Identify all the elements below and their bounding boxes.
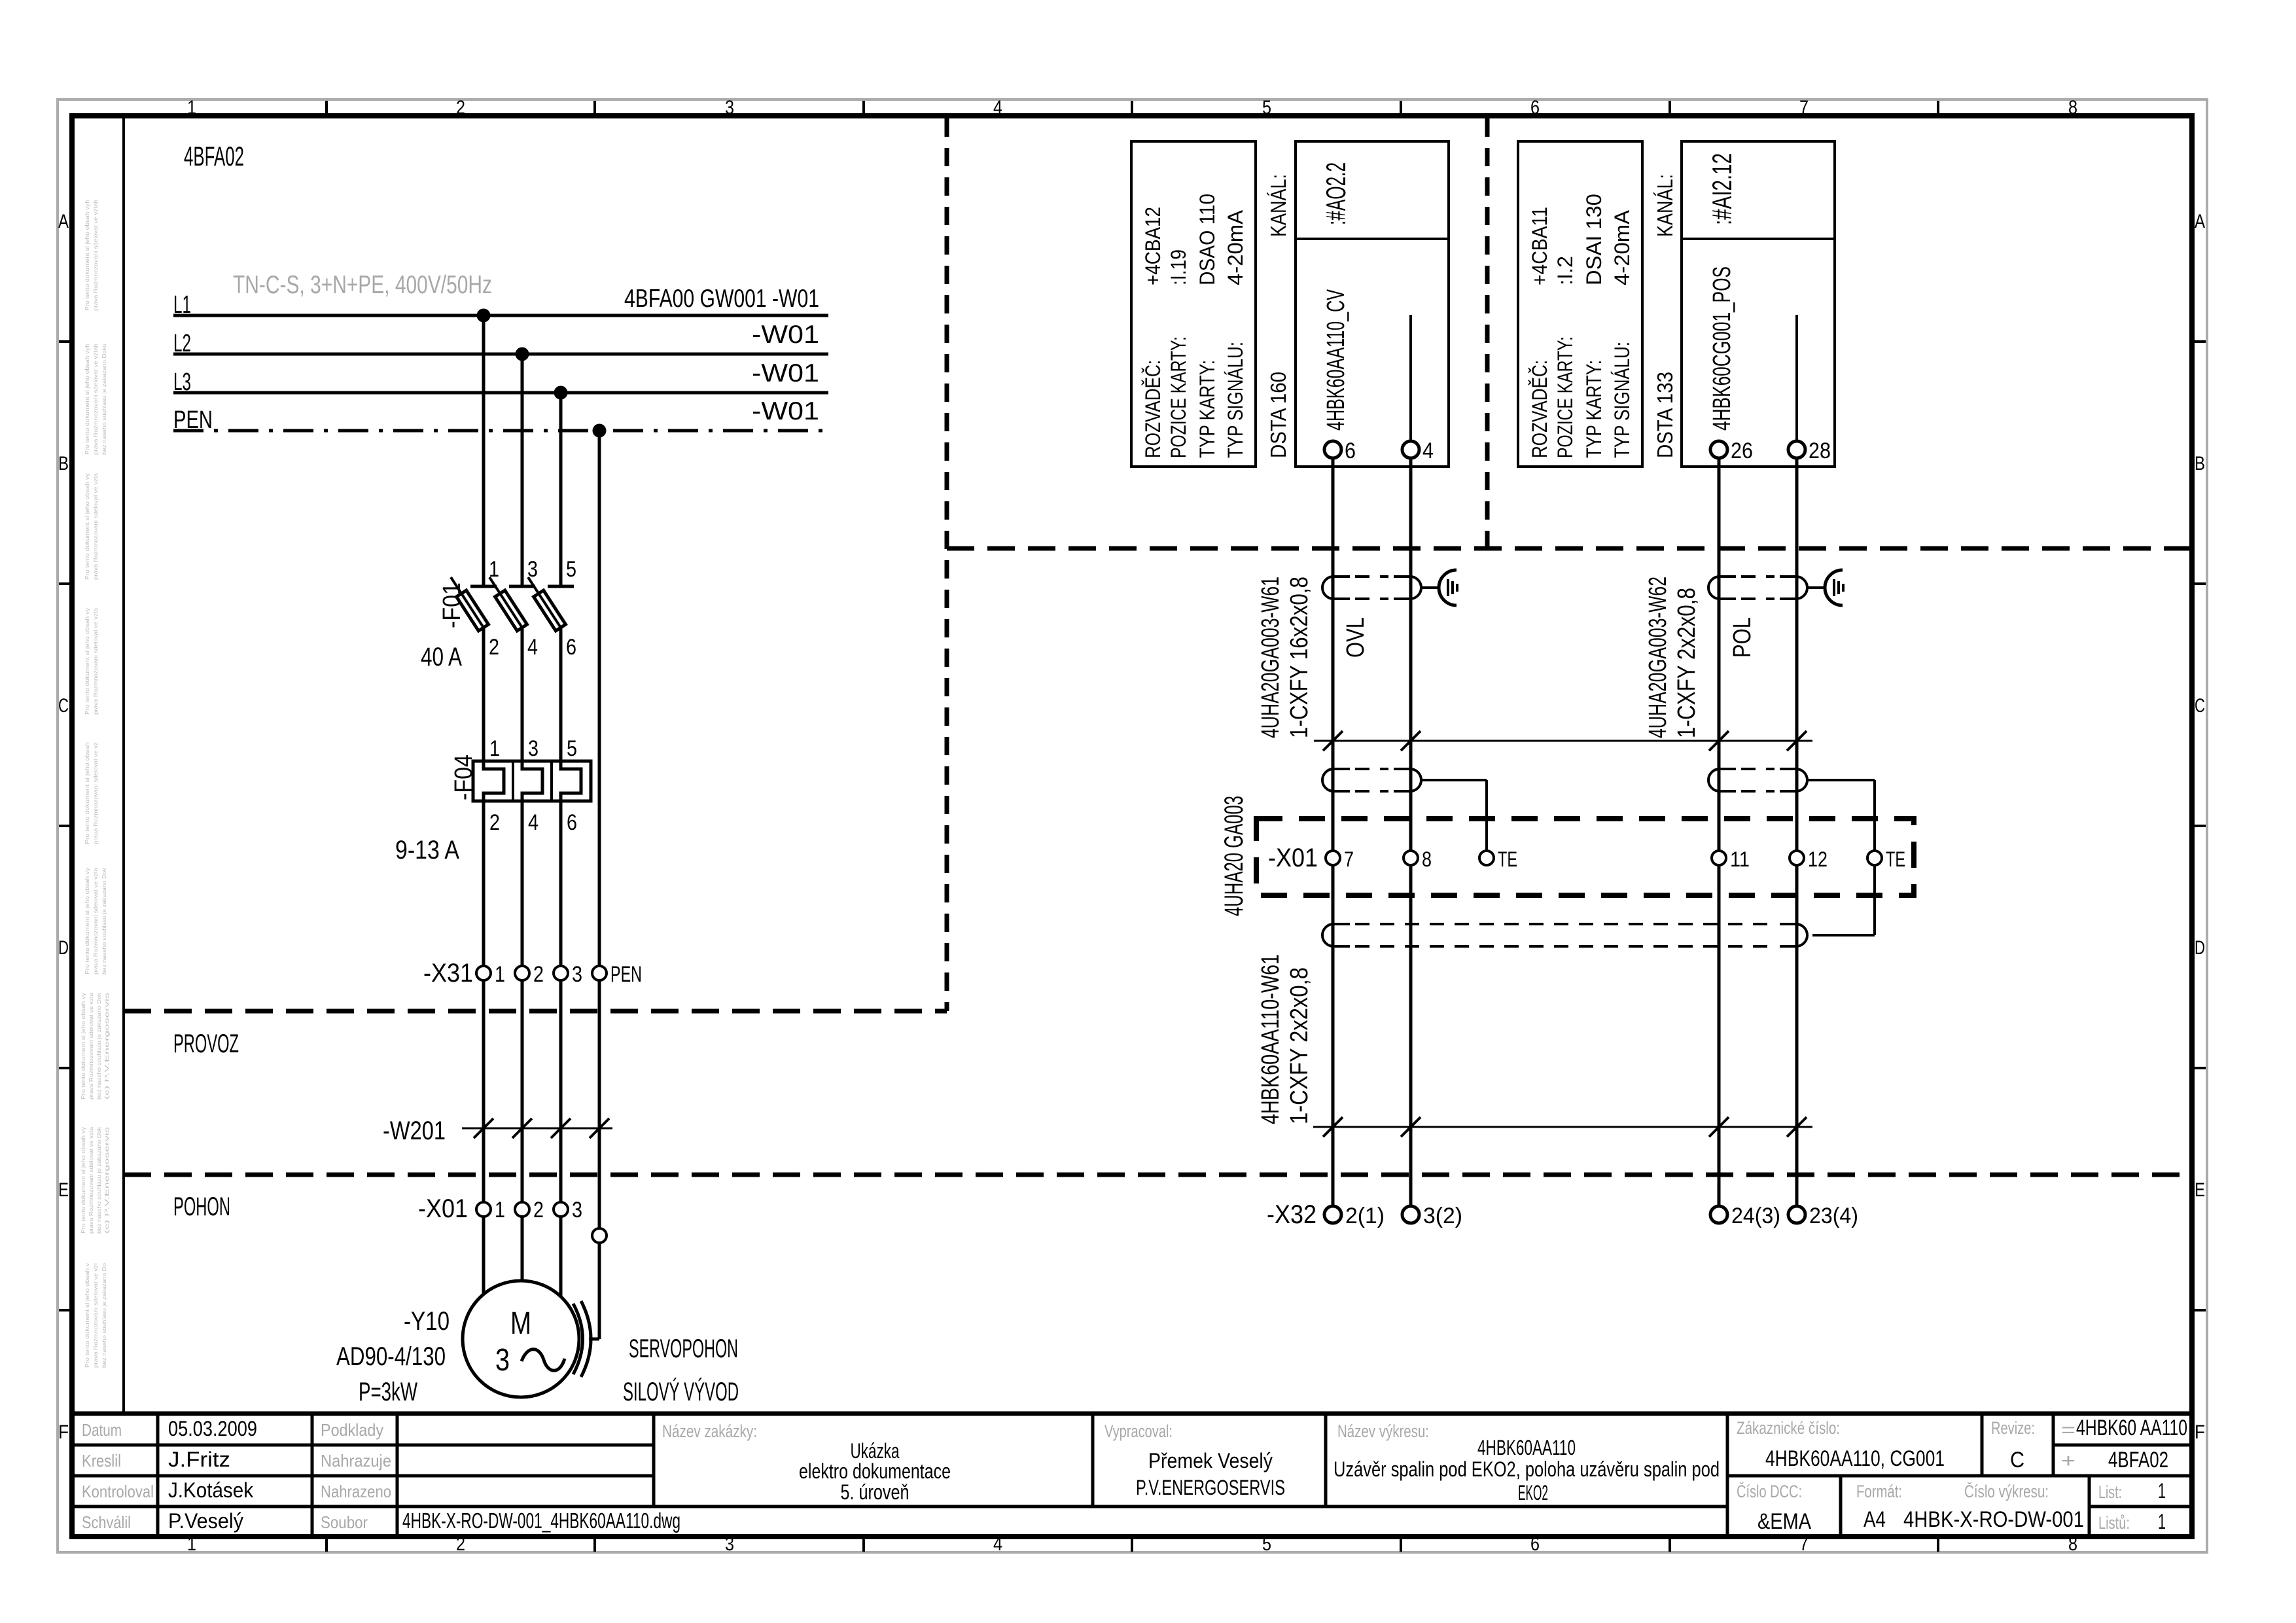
long cable screen below -X01 [1322,924,1807,946]
pin labels -F04 1/2 [489,736,500,835]
svg-text:Číslo DCC:: Číslo DCC: [1737,1481,1802,1501]
svg-text:4UHA20GA003-W61: 4UHA20GA003-W61 [1257,577,1284,738]
svg-text:Soubor: Soubor [321,1512,368,1532]
svg-text:Pro tento dokument si jeho obs: Pro tento dokument si jeho obsah vy [84,473,90,580]
svg-text:M: M [510,1306,531,1341]
svg-text::#AI2.12: :#AI2.12 [1706,153,1737,225]
section label PROVOZ [173,1029,239,1058]
svg-text:OVL: OVL [1342,617,1369,658]
svg-text:Název zakázky:: Název zakázky: [662,1421,757,1441]
svg-text:5. úroveň: 5. úroveň [841,1480,910,1504]
svg-text:1: 1 [2158,1479,2166,1503]
svg-text:-W201: -W201 [383,1116,446,1145]
label DSTA 133 [1653,372,1677,458]
label KANAL (right) [1653,174,1677,237]
svg-text:Pro tento dokument si jeho obs: Pro tento dokument si jeho obsah vyh [84,200,90,311]
svg-text:Kreslil: Kreslil [82,1451,121,1471]
label DSTA 160 [1266,372,1290,458]
svg-text:ROZVADĚČ:: ROZVADĚČ: [1141,360,1165,458]
svg-text:1-CXFY 2x2x0,8: 1-CXFY 2x2x0,8 [1286,967,1313,1124]
section boundary POHON (dashed) [124,1173,2193,1177]
terminal strip -X31 [423,959,642,988]
svg-text:POL: POL [1729,617,1756,658]
svg-text:1-CXFY 2x2x0,8: 1-CXFY 2x2x0,8 [1673,588,1701,738]
cable screen OVL pair (top) [1322,577,1421,599]
cable label -W01 (PEN) [752,397,819,425]
svg-text:POHON: POHON [173,1192,230,1221]
svg-text:elektro dokumentace: elektro dokumentace [799,1459,951,1483]
svg-text:A: A [2195,211,2205,232]
svg-text:2: 2 [456,1533,465,1555]
svg-text:3: 3 [495,1343,510,1378]
svg-text:5: 5 [566,557,576,582]
title block (document furniture) [71,1414,2193,1537]
svg-text:26: 26 [1731,438,1753,463]
svg-text:prava Rozmnozovani sdelovat ve: prava Rozmnozovani sdelovat ve vzta [92,608,99,715]
svg-text:Uzávěr spalin pod EKO2, poloha: Uzávěr spalin pod EKO2, poloha uzávěru s… [1333,1457,1720,1481]
bus L2 [173,330,828,357]
cable label 4UHA20GA003-W62 [1644,577,1672,738]
pin labels -F04 3/4 [528,736,539,835]
thermal overload relay -F04 [450,755,591,801]
svg-text:3: 3 [528,736,539,761]
junction dot L2 [516,348,529,361]
value label 9-13 A [395,836,459,865]
svg-text:prava Rozmnozovani sdelovat ve: prava Rozmnozovani sdelovat ve vzt [92,1262,99,1368]
svg-text:8: 8 [1422,847,1432,871]
I/O card info box U1 (+4CBA12 DSAO 110) [1131,141,1256,467]
svg-text:POZICE KARTY:: POZICE KARTY: [1553,336,1577,458]
svg-text:PEN: PEN [610,962,642,987]
wire from bus down (phase 1) [482,315,486,586]
svg-text:6: 6 [1530,1533,1540,1555]
cable label -W01 (L2) [752,321,819,349]
svg-text:3: 3 [725,1533,734,1555]
svg-text:Revize:: Revize: [1991,1418,2035,1438]
wire -X31 to -X01 (phase 2) [521,980,524,1202]
svg-text:(c) P.V.Energoservis: (c) P.V.Energoservis [103,1127,110,1234]
cable label 4BFA00 GW001 -W01 [624,285,819,313]
svg-text:Formát:: Formát: [1856,1482,1902,1501]
svg-text:3: 3 [725,97,734,118]
signal wire 3 (-X01 to -X32) [1718,865,1721,1207]
svg-text:Pro tento dokument si jeho obs: Pro tento dokument si jeho obsah vyh [84,344,90,455]
signal wire 1 (channel to -X01) [1332,458,1335,851]
svg-text:4-20mA: 4-20mA [1610,209,1634,285]
svg-text:Kontroloval: Kontroloval [82,1482,154,1501]
label SERVOPOHON [629,1334,738,1363]
svg-text:2: 2 [489,810,500,835]
svg-text:-W01: -W01 [752,359,819,387]
wire -X31 to -X01 (phase 3) [559,980,563,1202]
signal wire 4 (-X01 to -X32) [1795,865,1799,1207]
svg-text:4BFA02: 4BFA02 [2108,1448,2168,1472]
svg-text:Pro tento dokument si jeho obs: Pro tento dokument si jeho obsah v [84,1262,90,1368]
svg-text:3(2): 3(2) [1423,1204,1462,1228]
svg-text:3: 3 [572,962,582,987]
svg-text:C: C [2010,1448,2024,1472]
svg-text:5: 5 [567,736,577,761]
svg-text:C: C [2195,695,2205,717]
cable label 1-CXFY 16x2x0,8 [1286,577,1313,738]
svg-text:TE: TE [1498,847,1517,871]
svg-text:A4: A4 [1863,1507,1886,1532]
svg-text:8: 8 [2068,1533,2077,1555]
wire -F04 to -X31 (phase 1) [482,801,486,966]
pin labels -F04 5/6 [567,736,577,835]
screen earth symbol (POL) [1808,570,1843,605]
motor earth arcs [573,1301,591,1377]
motor -Y10 (M 3~) [463,1281,579,1397]
label P=3kW [359,1378,417,1406]
wire from bus down (phase 4) [598,431,601,966]
zone divider dashed vertical 1 [945,118,949,1011]
svg-text:40 A: 40 A [421,643,462,671]
svg-text:&EMA: &EMA [1757,1509,1811,1534]
svg-text:POZICE KARTY:: POZICE KARTY: [1167,336,1190,458]
svg-text:=: = [2061,1419,2075,1441]
wire PEN down from -X31 [598,980,601,1228]
svg-text:Pro tento dokument si jeho obs: Pro tento dokument si jeho obsah vy [84,607,90,715]
screen link to TE (left) [1422,780,1487,851]
fuse-switch -F01 pole 3 (pins 5/6) [528,557,576,761]
svg-text:11: 11 [1730,847,1750,871]
svg-text:4BFA00 GW001 -W01: 4BFA00 GW001 -W01 [624,285,819,313]
wire from bus down (phase 3) [559,393,563,586]
svg-text:SERVOPOHON: SERVOPOHON [629,1334,738,1363]
svg-text:4UHA20GA003-W62: 4UHA20GA003-W62 [1644,577,1672,738]
cable screen (right pair, lower) [1708,769,1807,791]
svg-text:DSTA 160: DSTA 160 [1266,372,1290,458]
svg-text:KANÁL:: KANÁL: [1266,174,1290,237]
svg-text:Pro tento dokument si jeho obs: Pro tento dokument si jeho obsah vy [80,1126,86,1234]
svg-text:TE: TE [1886,847,1905,871]
svg-text:+4CBA12: +4CBA12 [1141,207,1165,285]
svg-text:TYP SIGNÁLU:: TYP SIGNÁLU: [1224,342,1247,458]
signal wire 2 (channel to -X01) [1409,458,1413,851]
svg-text:C: C [58,695,69,717]
svg-text:DSAO 110: DSAO 110 [1195,194,1219,285]
svg-text:28: 28 [1809,438,1831,463]
cable label 1-CXFY 2x2x0,8 (lower) [1286,967,1313,1124]
svg-text:prava Rozmnozovani sdelovat ve: prava Rozmnozovani sdelovat ve vztah [92,200,99,311]
svg-text:4HBK-X-RO-DW-001: 4HBK-X-RO-DW-001 [1903,1507,2084,1532]
svg-text:DSTA 133: DSTA 133 [1653,372,1677,458]
zone divider dashed horizontal [947,546,2193,551]
junction dot L3 [554,386,568,400]
svg-text:4-20mA: 4-20mA [1224,209,1247,285]
svg-text:1: 1 [2158,1510,2166,1533]
TE wire to lower screen [1812,865,1875,935]
terminal strip -X01 (drive) [418,1194,582,1223]
svg-text:8: 8 [2068,97,2077,118]
svg-text:bez naseho souhlasu je zakazan: bez naseho souhlasu je zakazano Do [101,1263,107,1368]
value label 40 A [421,643,462,671]
I/O card info box U2 (+4CBA11 DSAI 130) [1518,141,1642,467]
svg-text:7: 7 [1799,1533,1809,1555]
svg-text:A: A [58,211,69,232]
fuse-switch -F01 pole 1 (pins 1/2) [451,557,499,761]
svg-text:Podklady: Podklady [321,1420,383,1440]
svg-text:PROVOZ: PROVOZ [173,1029,239,1058]
svg-text:4HBK60 AA110: 4HBK60 AA110 [2076,1416,2187,1440]
svg-text:5: 5 [1262,97,1271,118]
svg-text:Nahrazuje: Nahrazuje [321,1451,391,1471]
svg-text:AD90-4/130: AD90-4/130 [336,1342,446,1371]
svg-text:-X01: -X01 [1268,844,1318,872]
cable label 1-CXFY 2x2x0,8 [1673,588,1701,738]
svg-text:1: 1 [495,962,505,987]
svg-text:Zákaznické číslo:: Zákaznické číslo: [1737,1418,1840,1438]
svg-text:EKO2: EKO2 [1518,1481,1548,1505]
svg-text:KANÁL:: KANÁL: [1653,174,1677,237]
svg-text:B: B [2195,453,2205,474]
label 4UHA20 GA003 [1220,796,1248,916]
junction dot PEN [593,424,607,438]
svg-text:5: 5 [1262,1533,1271,1555]
svg-text:Číslo výkresu:: Číslo výkresu: [1964,1481,2049,1501]
svg-text:12: 12 [1808,847,1828,871]
svg-text:-Y10: -Y10 [404,1307,450,1336]
label KANAL (left) [1266,174,1290,237]
svg-text:bez naseho souhlasu je zakazan: bez naseho souhlasu je zakazano Dok [96,1126,102,1234]
svg-text:F: F [58,1421,69,1443]
svg-text:TN-C-S, 3+N+PE, 400V/50Hz: TN-C-S, 3+N+PE, 400V/50Hz [233,271,492,299]
terminal strip -X01 (remote) [1268,844,1905,872]
label AD90-4/130 [336,1342,446,1371]
svg-text:prava Rozmnozovani sdelovat ve: prava Rozmnozovani sdelovat ve vzta [88,993,94,1099]
svg-text:prava Rozmnozovani sdelovat ve: prava Rozmnozovani sdelovat ve vztah [92,344,99,455]
svg-text:-X32: -X32 [1267,1200,1316,1229]
svg-text:2(1): 2(1) [1345,1204,1385,1228]
svg-text:prava Rozmnozovani sdelovat ve: prava Rozmnozovani sdelovat ve vz [92,742,99,844]
svg-text:24(3): 24(3) [1731,1204,1780,1228]
svg-text:-W01: -W01 [752,321,819,349]
wire -F04 to -X31 (phase 3) [559,801,563,966]
svg-text:D: D [2195,937,2205,959]
svg-text:6: 6 [567,810,577,835]
svg-text:4BFA02: 4BFA02 [184,141,244,171]
svg-text:Název výkresu:: Název výkresu: [1337,1421,1429,1441]
svg-text:-W01: -W01 [752,397,819,425]
svg-text:4HBK60AA110-W61: 4HBK60AA110-W61 [1257,954,1284,1124]
PEN terminal circle [592,1228,607,1243]
svg-text:1-CXFY 16x2x0,8: 1-CXFY 16x2x0,8 [1286,577,1313,738]
wire -F04 to -X31 (phase 2) [521,801,524,966]
svg-text:TYP KARTY:: TYP KARTY: [1582,360,1606,458]
signal wire 4 (channel to -X01) [1795,458,1799,851]
svg-text:Listů:: Listů: [2098,1513,2130,1533]
svg-text:TYP SIGNÁLU:: TYP SIGNÁLU: [1610,342,1634,458]
svg-text:4HBK60AA110: 4HBK60AA110 [1477,1436,1576,1459]
wire from bus down (phase 2) [521,354,524,586]
DCS channel box :#AO2.2 / 4HBK60AA110_CV [1296,141,1449,467]
cable crossing marks (lower) [1313,1117,1812,1137]
svg-text:prava Rozmnozovani sdelovat ve: prava Rozmnozovani sdelovat ve vzta [92,868,99,974]
svg-text:bez naseho souhlasu je zakazan: bez naseho souhlasu je zakazano Dok [101,867,107,974]
svg-text:6: 6 [1345,438,1356,463]
breaker -F01 reference label [438,582,466,628]
svg-text:P=3kW: P=3kW [359,1378,417,1406]
svg-text:2: 2 [533,1198,544,1222]
svg-text:1: 1 [495,1198,505,1222]
svg-text:4: 4 [993,97,1002,118]
svg-text:4HBK60AA110_CV: 4HBK60AA110_CV [1322,289,1350,431]
svg-text:prava Rozmnozovani sdelovat ve: prava Rozmnozovani sdelovat ve vzta [92,473,99,580]
svg-text:4: 4 [528,810,539,835]
svg-text:9-13 A: 9-13 A [395,836,459,865]
svg-text:B: B [58,453,69,474]
svg-text:F: F [2195,1421,2205,1443]
node 4BFA02 location label [184,141,244,171]
svg-text:3: 3 [572,1198,582,1222]
svg-text:2: 2 [533,962,544,987]
svg-text:1: 1 [187,1533,196,1555]
svg-text:4HBK60CG001_POS: 4HBK60CG001_POS [1708,266,1736,431]
svg-text:DSAI 130: DSAI 130 [1582,194,1606,285]
terminal box 4UHA20 GA003 (dashed) [1256,819,1914,895]
svg-text:6: 6 [1530,97,1540,118]
net label TN-C-S system [233,271,492,299]
bus L3 [173,368,828,396]
svg-text:4: 4 [1422,438,1434,463]
svg-text:1: 1 [187,97,196,118]
svg-text:Vypracoval:: Vypracoval: [1104,1421,1173,1441]
svg-text:(c) P.V.Energoservis: (c) P.V.Energoservis [103,993,110,1099]
svg-text:P.V.ENERGOSERVIS: P.V.ENERGOSERVIS [1136,1476,1285,1499]
svg-text:SILOVÝ VÝVOD: SILOVÝ VÝVOD [623,1377,739,1406]
svg-text:TYP KARTY:: TYP KARTY: [1195,360,1219,458]
svg-text:2: 2 [489,635,499,660]
svg-text:Datum: Datum [82,1420,122,1440]
svg-text:Nahrazeno: Nahrazeno [321,1482,391,1501]
cable screen POL pair (top) [1708,577,1807,599]
wire PEN to motor earth [589,1243,599,1339]
svg-text:4: 4 [993,1533,1002,1555]
svg-text:+: + [2061,1450,2075,1472]
bus PEN (dash-dot) [173,406,828,434]
svg-text:Pro tento dokument si jeho obs: Pro tento dokument si jeho obsah vy [84,867,90,974]
svg-text:Pro tento dokument si jeho obs: Pro tento dokument si jeho obsah [84,742,90,844]
junction dot L1 [477,309,491,323]
svg-text:7: 7 [1344,847,1354,871]
svg-text:Přemek Veselý: Přemek Veselý [1148,1449,1273,1472]
svg-text:7: 7 [1799,97,1809,118]
svg-text:Pro tento dokument si jeho obs: Pro tento dokument si jeho obsah vy [80,992,86,1099]
svg-text:05.03.2009: 05.03.2009 [168,1417,257,1440]
wire -X31 to -X01 (phase 1) [482,980,486,1202]
cable label 4UHA20GA003-W61 [1257,577,1284,738]
svg-text::I.2: :I.2 [1553,256,1577,285]
svg-text::I.19: :I.19 [1167,249,1190,285]
label SILOVY VYVOD [623,1377,739,1406]
svg-text:Schválil: Schválil [82,1512,131,1532]
svg-text:ROZVADĚČ:: ROZVADĚČ: [1528,360,1551,458]
wire -X01:1 to motor [482,1217,486,1294]
svg-text:-X01: -X01 [418,1194,468,1223]
svg-text:List:: List: [2098,1482,2122,1502]
svg-text:4HBK60AA110, CG001: 4HBK60AA110, CG001 [1765,1446,1945,1471]
svg-text:6: 6 [566,635,576,660]
signal wire 3 (channel to -X01) [1718,458,1721,851]
cable -W201 marker [383,1116,612,1145]
svg-text:J.Kotásek: J.Kotásek [168,1478,254,1502]
wire -X01:3 to motor [559,1217,563,1296]
signal name POL [1729,617,1756,658]
cable screen (left pair, lower) [1322,769,1421,791]
cable label 4HBK60AA110-W61 [1257,954,1284,1124]
bus L1 [173,291,828,319]
screen earth symbol (OVL) [1422,570,1457,605]
svg-text:-X31: -X31 [423,959,473,988]
svg-text:bez naseho souhlasu je zakazan: bez naseho souhlasu je zakazano Dok [96,992,102,1099]
decorative margin notes [80,200,110,1368]
zone divider dashed vertical 2 [1485,118,1490,548]
fuse-switch -F01 pole 2 (pins 3/4) [489,557,538,761]
label -Y10 [404,1307,450,1336]
cable crossing marks (upper) [1314,731,1812,751]
svg-text:prava Rozmnozovani sdelovat ve: prava Rozmnozovani sdelovat ve vzta [88,1127,94,1234]
terminal strip -X32 [1267,1200,1858,1229]
svg-text:+4CBA11: +4CBA11 [1528,207,1551,285]
svg-text:P.Veselý: P.Veselý [168,1509,243,1533]
section boundary PROVOZ (dashed) [124,1009,947,1014]
svg-text:E: E [58,1179,69,1201]
svg-text:1: 1 [489,736,500,761]
svg-text:23(4): 23(4) [1809,1204,1858,1228]
cable label -W01 (L3) [752,359,819,387]
svg-text:4UHA20 GA003: 4UHA20 GA003 [1220,796,1248,916]
signal wire 1 (-X01 to -X32) [1332,865,1335,1207]
svg-text::#AO2.2: :#AO2.2 [1320,162,1351,225]
signal name OVL [1342,617,1369,658]
section label POHON [173,1192,230,1221]
svg-text:bez naseho souhlasu je zakazan: bez naseho souhlasu je zakazano Doku [101,344,107,455]
svg-text:4: 4 [527,635,538,660]
DCS channel box :#AI2.12 / 4HBK60CG001_POS [1682,141,1835,467]
signal wire 2 (-X01 to -X32) [1409,865,1413,1207]
svg-text:J.Fritz: J.Fritz [168,1448,230,1471]
svg-text:E: E [2195,1179,2205,1201]
svg-text:D: D [58,937,69,959]
svg-text:4HBK-X-RO-DW-001_4HBK60AA110.d: 4HBK-X-RO-DW-001_4HBK60AA110.dwg [402,1508,680,1533]
svg-text:2: 2 [456,97,465,118]
screen link to TE (right) [1808,780,1875,851]
wire -X01:2 to motor [521,1217,524,1281]
